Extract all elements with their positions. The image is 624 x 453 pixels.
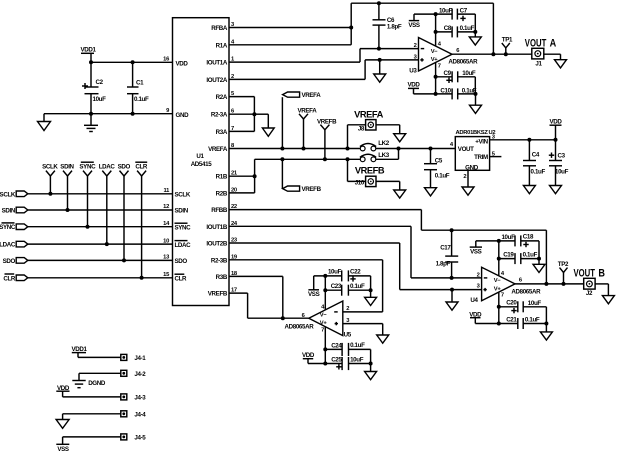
svg-text:0.1uF: 0.1uF xyxy=(525,317,540,324)
svg-text:0.1uF: 0.1uF xyxy=(460,25,475,32)
svg-text:C24: C24 xyxy=(331,342,342,349)
svg-text:C20: C20 xyxy=(506,300,517,307)
svg-text:7: 7 xyxy=(438,63,441,69)
svg-text:C9: C9 xyxy=(443,70,451,77)
svg-text:10uF: 10uF xyxy=(528,300,542,307)
svg-text:12: 12 xyxy=(163,204,169,210)
svg-text:CLR: CLR xyxy=(175,276,188,283)
svg-text:C8: C8 xyxy=(444,25,452,32)
svg-text:VREFB: VREFB xyxy=(317,118,337,125)
svg-text:10uF: 10uF xyxy=(93,96,107,103)
svg-text:TP1: TP1 xyxy=(502,36,513,43)
svg-text:C4: C4 xyxy=(532,152,540,159)
svg-text:R2-3B: R2-3B xyxy=(211,257,228,264)
svg-text:ADR01BKSZ: ADR01BKSZ xyxy=(456,130,489,136)
svg-text:0.1uF: 0.1uF xyxy=(435,173,450,180)
svg-text:R2-3A: R2-3A xyxy=(211,112,228,119)
svg-text:VREFB: VREFB xyxy=(208,291,228,298)
svg-text:VREFB: VREFB xyxy=(355,166,385,176)
svg-text:SYNC: SYNC xyxy=(175,224,192,231)
svg-text:VREFA: VREFA xyxy=(354,109,383,119)
svg-text:B: B xyxy=(598,268,605,280)
svg-text:SCLK: SCLK xyxy=(42,164,58,171)
svg-text:2: 2 xyxy=(463,174,466,180)
svg-text:10uF: 10uF xyxy=(328,269,342,276)
svg-text:0.1uF: 0.1uF xyxy=(350,283,365,290)
svg-text:2: 2 xyxy=(346,306,349,312)
svg-text:RFBA: RFBA xyxy=(211,25,228,32)
svg-text:R2B: R2B xyxy=(216,190,228,197)
svg-text:VSS: VSS xyxy=(57,446,69,453)
svg-text:SDO: SDO xyxy=(118,164,131,171)
svg-text:VSS: VSS xyxy=(408,22,420,29)
svg-text:10uF: 10uF xyxy=(501,234,515,241)
svg-text:C1: C1 xyxy=(136,80,144,87)
svg-text:U1: U1 xyxy=(196,153,204,160)
svg-text:SYNC: SYNC xyxy=(0,224,16,231)
svg-text:C17: C17 xyxy=(440,244,451,251)
svg-text:LK2: LK2 xyxy=(378,140,390,147)
svg-text:AD8065AR: AD8065AR xyxy=(285,323,315,330)
svg-text:VDD: VDD xyxy=(176,61,189,68)
svg-text:C18: C18 xyxy=(523,234,534,241)
svg-text:V−: V− xyxy=(431,49,439,55)
svg-text:+VIN: +VIN xyxy=(475,138,488,145)
svg-text:V+: V+ xyxy=(431,57,439,63)
svg-text:10uF: 10uF xyxy=(462,70,476,77)
svg-text:V−: V− xyxy=(320,312,328,318)
svg-text:1.8pF: 1.8pF xyxy=(387,24,402,31)
svg-text:C23: C23 xyxy=(331,283,342,290)
svg-text:J10: J10 xyxy=(355,180,365,187)
svg-text:VDD: VDD xyxy=(549,118,562,125)
svg-text:10: 10 xyxy=(163,238,169,244)
svg-text:R1A: R1A xyxy=(216,42,228,49)
svg-text:C2: C2 xyxy=(96,79,104,86)
svg-text:VREFA: VREFA xyxy=(208,146,228,153)
svg-text:1.8pF: 1.8pF xyxy=(436,260,451,267)
svg-text:J4-5: J4-5 xyxy=(134,435,146,442)
svg-text:AD8065AR: AD8065AR xyxy=(511,288,541,295)
svg-text:VSS: VSS xyxy=(470,249,482,256)
svg-text:R1B: R1B xyxy=(216,174,228,181)
svg-text:VREFB: VREFB xyxy=(302,186,322,193)
svg-text:LDAC: LDAC xyxy=(0,242,16,249)
svg-text:10uF: 10uF xyxy=(439,7,453,14)
svg-text:IOUT2A: IOUT2A xyxy=(206,77,227,84)
svg-text:J1: J1 xyxy=(535,60,542,67)
svg-text:C10: C10 xyxy=(440,87,451,94)
svg-text:IOUT1B: IOUT1B xyxy=(206,224,227,231)
svg-text:C22: C22 xyxy=(350,269,361,276)
svg-text:VDD: VDD xyxy=(407,82,420,89)
svg-text:0.1uF: 0.1uF xyxy=(462,87,477,94)
svg-text:7: 7 xyxy=(321,327,324,333)
svg-text:0.1uF: 0.1uF xyxy=(531,169,546,176)
svg-text:AD5415: AD5415 xyxy=(191,161,213,168)
svg-text:R3A: R3A xyxy=(216,129,228,136)
svg-text:0.1uF: 0.1uF xyxy=(134,96,149,103)
svg-text:J4-3: J4-3 xyxy=(134,395,146,402)
svg-text:IOUT2B: IOUT2B xyxy=(206,241,227,248)
svg-text:LK3: LK3 xyxy=(378,152,390,159)
svg-text:VSS: VSS xyxy=(308,291,320,298)
svg-text:GND: GND xyxy=(176,112,190,119)
svg-text:R3B: R3B xyxy=(216,274,228,281)
svg-text:J4-1: J4-1 xyxy=(134,355,146,362)
svg-text:V+: V+ xyxy=(320,321,328,327)
svg-text:SDO: SDO xyxy=(175,258,188,265)
svg-text:U3: U3 xyxy=(409,68,417,75)
svg-text:R2A: R2A xyxy=(216,94,228,101)
svg-text:VREFA: VREFA xyxy=(302,92,322,99)
svg-text:V+: V+ xyxy=(494,286,502,292)
svg-text:7: 7 xyxy=(501,293,504,299)
svg-text:TP2: TP2 xyxy=(558,261,569,268)
svg-text:SCLK: SCLK xyxy=(175,191,191,198)
svg-text:C25: C25 xyxy=(331,356,342,363)
svg-text:GND: GND xyxy=(465,164,479,171)
svg-text:U4: U4 xyxy=(470,297,478,304)
svg-text:SYNC: SYNC xyxy=(79,164,96,171)
svg-text:LDAC: LDAC xyxy=(175,242,192,249)
svg-text:SDIN: SDIN xyxy=(175,208,189,215)
svg-text:J4-4: J4-4 xyxy=(134,412,146,419)
svg-text:J8: J8 xyxy=(358,126,365,133)
svg-text:A: A xyxy=(550,37,557,49)
svg-text:C7: C7 xyxy=(460,7,468,14)
svg-text:VOUT: VOUT xyxy=(458,146,474,153)
svg-text:SCLK: SCLK xyxy=(0,191,16,198)
svg-text:U5: U5 xyxy=(344,332,352,339)
svg-text:LDAC: LDAC xyxy=(99,164,116,171)
svg-text:0.1uF: 0.1uF xyxy=(350,342,365,349)
svg-text:CLR: CLR xyxy=(135,164,148,171)
svg-text:0.1uF: 0.1uF xyxy=(523,252,538,259)
svg-text:SDIN: SDIN xyxy=(60,164,74,171)
svg-text:AD8065AR: AD8065AR xyxy=(448,59,478,66)
svg-text:10uF: 10uF xyxy=(555,169,569,176)
svg-text:SDO: SDO xyxy=(3,258,16,265)
svg-text:SDIN: SDIN xyxy=(2,208,16,215)
svg-text:C21: C21 xyxy=(506,317,517,324)
svg-text:TRIM: TRIM xyxy=(474,154,488,161)
svg-text:10uF: 10uF xyxy=(350,356,364,363)
svg-text:DGND: DGND xyxy=(88,380,106,387)
svg-text:2: 2 xyxy=(414,43,417,49)
svg-text:C19: C19 xyxy=(503,252,514,259)
svg-text:J2: J2 xyxy=(586,290,593,297)
svg-text:C3: C3 xyxy=(558,153,566,160)
svg-text:CLR: CLR xyxy=(3,275,16,282)
svg-text:RFBB: RFBB xyxy=(211,207,228,214)
svg-text:J4-2: J4-2 xyxy=(134,371,146,378)
svg-text:C5: C5 xyxy=(435,158,443,165)
svg-text:IOUT1A: IOUT1A xyxy=(206,60,227,67)
svg-text:2: 2 xyxy=(477,272,480,278)
svg-text:V−: V− xyxy=(494,278,502,284)
